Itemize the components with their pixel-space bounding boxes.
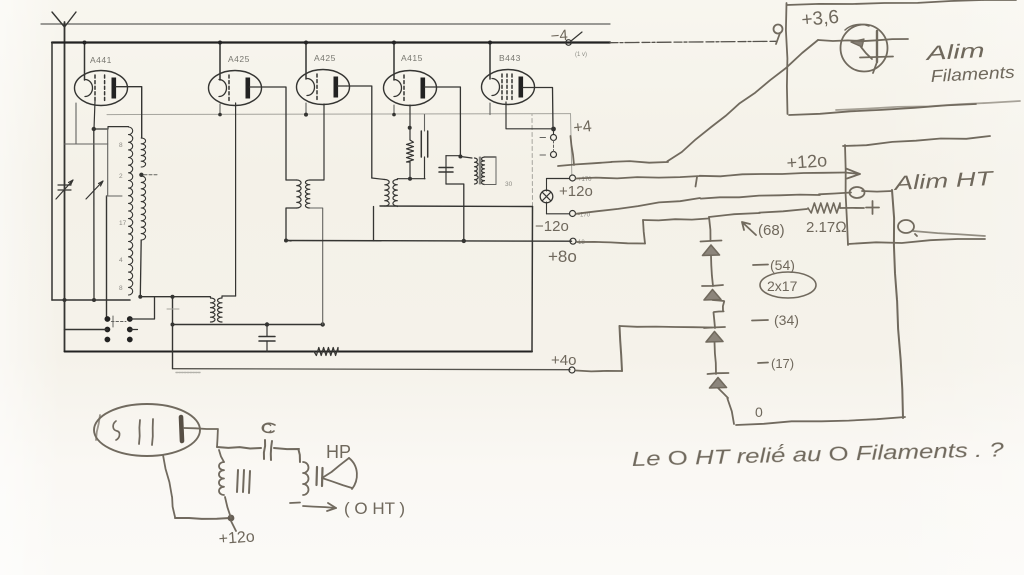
svg-text:( O HT ): ( O HT ) (344, 499, 405, 518)
wire +80 line (286, 240, 572, 243)
svg-text:HP: HP (326, 442, 351, 462)
wire bias line y114 (107, 114, 571, 115)
capacitor C3 (439, 168, 453, 173)
wire grid link y129 (94, 127, 129, 129)
wire V5 grid drop (506, 102, 551, 129)
svg-text:2x17: 2x17 (767, 278, 798, 294)
wire bus drop V4 (393, 43, 395, 81)
wire T2 bottoms (286, 208, 297, 241)
terminal +80 (570, 238, 576, 244)
resistor R bias (314, 348, 338, 356)
transformer T1 (210, 297, 212, 298)
svg-text:C: C (262, 420, 272, 436)
wire HT inner (862, 190, 892, 193)
wire V5 anode lead (523, 88, 553, 130)
svg-text:+8o: +8o (548, 247, 577, 266)
wire V1 grid down (94, 101, 95, 129)
svg-text:A441: A441 (90, 55, 112, 65)
faint dash (167, 308, 179, 310)
variable arrow 2 (86, 181, 103, 199)
speaker coil (303, 462, 309, 495)
wire grid line y297 (140, 296, 210, 298)
wire HT top chain (709, 209, 807, 217)
battery cell +3.6 (841, 25, 888, 72)
wire V2 filament down (219, 104, 221, 115)
speaker horn HP (322, 458, 349, 478)
wire filament supply pencil (558, 40, 818, 166)
tube V3 A425 (297, 70, 350, 105)
arrow 68 (742, 222, 756, 235)
coil box (106, 196, 108, 319)
wire V1 anode lead (116, 87, 142, 138)
T4 windings (460, 157, 472, 159)
resistor R 2.17ohm (808, 203, 840, 213)
wire return line y369 (174, 369, 571, 370)
svg-text:A415: A415 (401, 53, 423, 63)
wire HP minus arrow (290, 502, 300, 505)
wire V1 grid return x94 (93, 129, 95, 300)
transformer T2 (286, 179, 297, 181)
wire V3 anode lead (338, 86, 372, 178)
svg-text:2: 2 (119, 173, 123, 180)
wire filament bus (52, 41, 610, 43)
box Alim HT (843, 136, 990, 146)
svg-text:−4: −4 (550, 27, 568, 45)
terminal HT plus circle (850, 187, 865, 198)
svg-text:8: 8 (119, 285, 123, 292)
tube V1 A441 (75, 71, 128, 106)
node on ground line (63, 298, 67, 302)
tube V4 A415 (384, 71, 437, 106)
choke coil (225, 497, 231, 518)
terminal +4 circles (553, 129, 555, 135)
tube V5 B443 (482, 70, 535, 105)
svg-text:+3,6: +3,6 (801, 7, 840, 31)
wire +40 pencil (576, 370, 622, 373)
svg-text:A425: A425 (228, 54, 250, 64)
ellipse 2x17 (760, 272, 816, 298)
svg-text:(1 v): (1 v) (575, 52, 587, 58)
wire T3 bottom to bus (380, 205, 533, 208)
wire x173 vertical (172, 297, 174, 369)
wire minus bus y352 (65, 351, 533, 353)
resistor R2 (409, 105, 411, 140)
svg-text:+4o: +4o (551, 352, 576, 369)
wire V6 anode lead (184, 428, 218, 447)
terminal 9 circle (774, 25, 783, 34)
wire x373 link (373, 207, 375, 241)
pencil switch lever (571, 136, 575, 165)
wire bus drop to V1 (84, 43, 86, 81)
svg-text:+4: +4 (573, 118, 593, 137)
svg-text:18: 18 (578, 240, 585, 246)
variable capacitor arrow (58, 185, 71, 190)
svg-text:(68): (68) (758, 222, 785, 239)
svg-text:0: 0 (755, 404, 763, 420)
label dashes (753, 264, 768, 267)
svg-text:Alim: Alim (925, 40, 986, 65)
tube V2 A425 (209, 71, 262, 106)
wire +120 pencil (576, 173, 845, 179)
svg-text:8: 8 (119, 142, 123, 149)
svg-text:4: 4 (119, 257, 123, 264)
svg-text:17: 17 (119, 220, 127, 227)
inductor tuning coil L1 (129, 127, 133, 295)
svg-text:2.17Ω: 2.17Ω (806, 219, 847, 236)
svg-text:+12o: +12o (559, 183, 593, 200)
svg-text:+12o: +12o (218, 529, 255, 548)
wire L2 bottom (139, 240, 142, 297)
tick below junction (231, 521, 236, 531)
antenna (52, 12, 76, 27)
switch -4 on bus (566, 40, 572, 46)
wire V6 cathode down (163, 455, 175, 517)
transformer T4 (446, 155, 460, 157)
svg-text:+12o: +12o (786, 150, 828, 173)
wire cap to HP (274, 448, 300, 462)
box battery bottom (736, 417, 905, 425)
wire bus drop V3 (305, 43, 307, 80)
wire antenna mast (64, 22, 66, 300)
wire tap dashes (144, 174, 158, 176)
wire riser x532 (531, 207, 534, 352)
tube V6 pencil (94, 404, 200, 456)
wire bus drop V2 (219, 43, 221, 81)
lamp (540, 190, 553, 203)
wire ground line y300 (52, 299, 130, 301)
inductor coupling coil L2 (141, 138, 145, 167)
wire top antenna line (41, 23, 610, 25)
wire switch links (130, 297, 155, 319)
svg-text:−12o: −12o (535, 218, 569, 235)
wire -120 pencil (576, 193, 851, 214)
pencil tick (696, 177, 698, 187)
svg-text:(54): (54) (770, 257, 795, 273)
switch contacts (105, 316, 111, 322)
wire +80 pencil (577, 242, 645, 244)
box Alim Filaments (786, 3, 788, 114)
terminal circle +40 (569, 367, 575, 373)
inductor L2 lower (141, 176, 145, 240)
terminal O circle (898, 220, 914, 233)
terminal +120 (570, 175, 576, 181)
capacitor C blocking (264, 440, 265, 459)
svg-text:B443: B443 (499, 53, 521, 63)
svg-text:(34): (34) (774, 312, 799, 328)
plus sign (866, 201, 879, 214)
terminal -120 (570, 211, 576, 217)
wire bus drop V5 (489, 43, 491, 80)
wire V2 anode lead (250, 87, 287, 180)
svg-text:(17): (17) (771, 356, 794, 371)
svg-text:30: 30 (505, 181, 513, 188)
wire mast lower (64, 300, 66, 352)
wire T1 bottom y324 (173, 324, 323, 326)
svg-text:A425: A425 (314, 53, 336, 63)
battery chain B2 (709, 217, 711, 241)
wire left edge vertical (51, 43, 53, 301)
wire V1 cathode box (75, 103, 77, 144)
wire V4 anode lead (425, 87, 461, 157)
tiny print fragment (176, 372, 200, 374)
wire T4 bottom (446, 184, 464, 241)
capacitor C1 (266, 325, 268, 337)
transformer T3 (372, 178, 385, 180)
capacitor C2 (424, 115, 426, 131)
